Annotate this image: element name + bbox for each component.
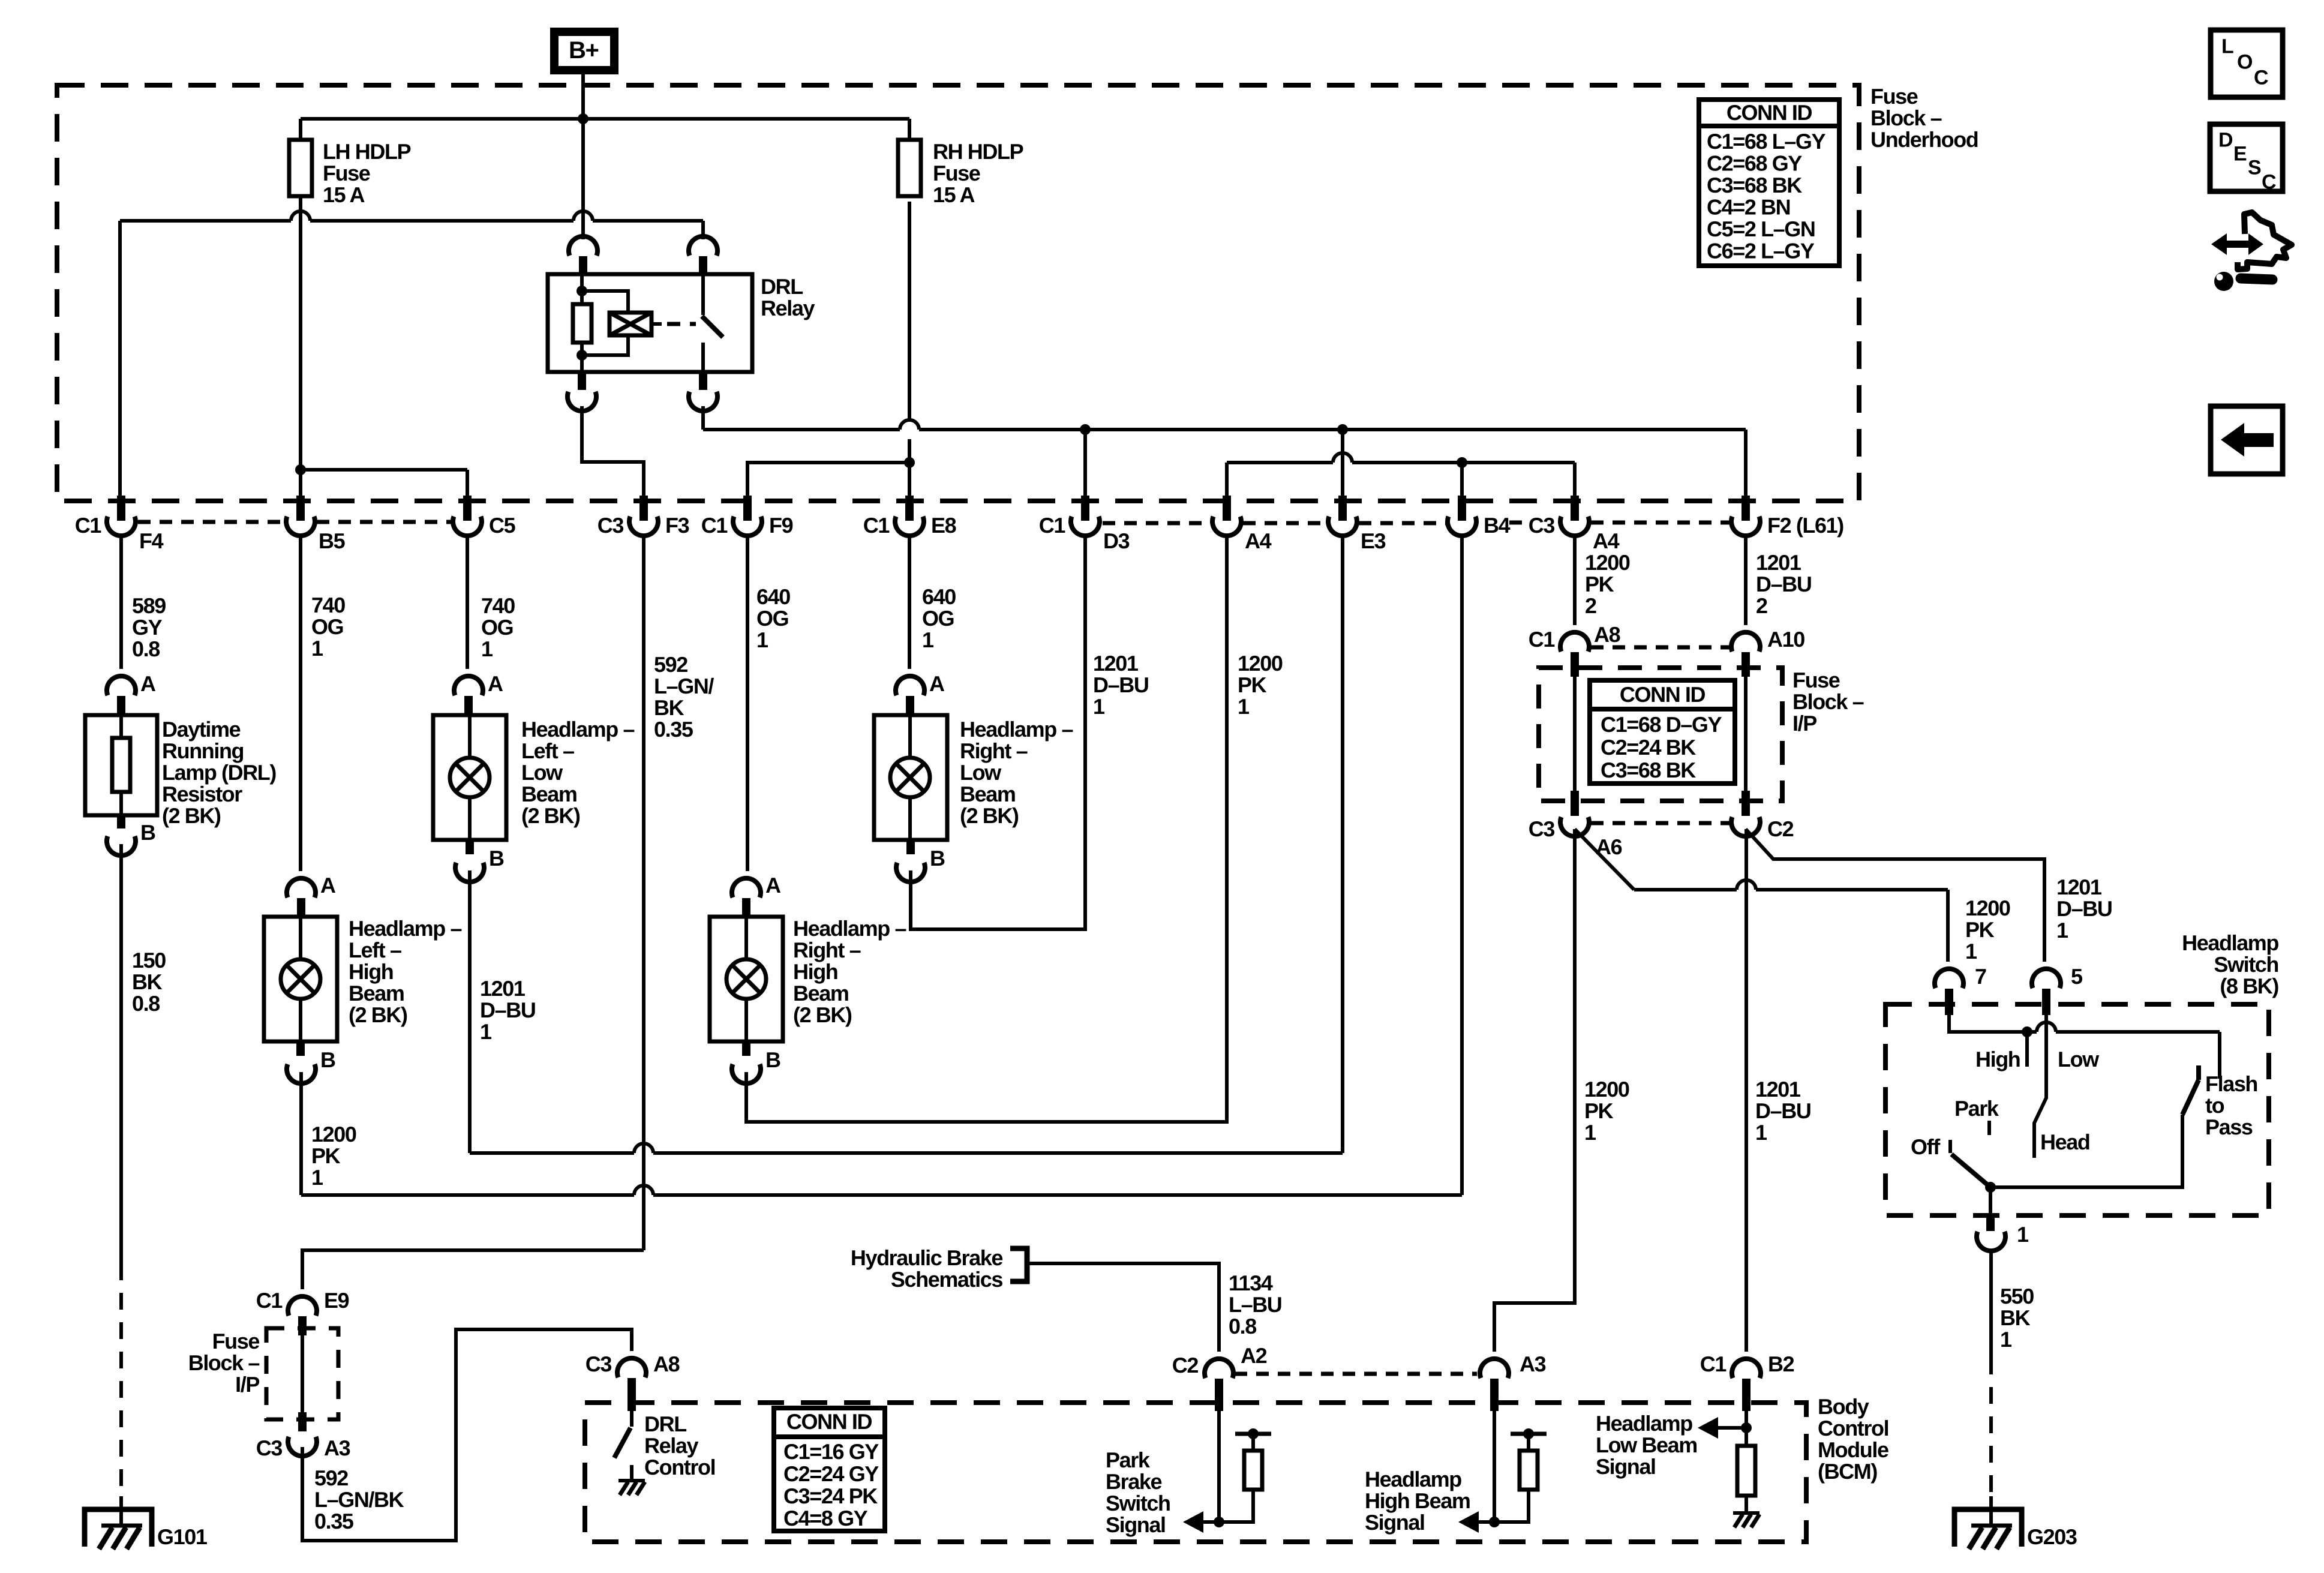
wire F2 drop xyxy=(1744,430,1747,499)
wire 550 BK xyxy=(1989,1253,1993,1358)
svg-text:1: 1 xyxy=(756,628,768,652)
svg-text:Fuse: Fuse xyxy=(212,1329,260,1353)
svg-text:C1: C1 xyxy=(1529,627,1556,652)
Fuse Block I/P dashed box (left) xyxy=(266,1328,338,1419)
svg-text:C1=16 GY: C1=16 GY xyxy=(783,1439,879,1464)
svg-text:Off: Off xyxy=(1911,1134,1941,1159)
svg-text:A: A xyxy=(929,671,945,696)
svg-text:D–BU: D–BU xyxy=(1755,1098,1810,1123)
svg-text:Running: Running xyxy=(162,739,244,763)
wire to B5 xyxy=(299,470,302,499)
connector link dashes right connectors xyxy=(1103,521,1211,526)
wire through I/P box left xyxy=(1573,668,1577,801)
svg-text:C: C xyxy=(2254,67,2268,89)
svg-text:1200: 1200 xyxy=(311,1122,356,1146)
svg-text:C2=24 BK: C2=24 BK xyxy=(1601,735,1696,760)
svg-text:1: 1 xyxy=(1755,1120,1767,1145)
connector F3 at fuse block underhood xyxy=(639,496,648,521)
lamp Headlamp - Right - High Beam xyxy=(710,917,783,1041)
svg-text:Control: Control xyxy=(1818,1416,1888,1440)
relay DRL top connector switch side xyxy=(689,236,717,256)
svg-text:A2: A2 xyxy=(1241,1343,1267,1368)
svg-text:OG: OG xyxy=(311,614,343,639)
svg-text:Beam: Beam xyxy=(793,981,848,1005)
connector B5 at fuse block underhood xyxy=(296,496,305,521)
svg-text:1: 1 xyxy=(480,1019,492,1044)
svg-text:C5: C5 xyxy=(489,513,516,538)
relay DRL coil branch xyxy=(582,291,628,313)
wire F2 col down xyxy=(1744,536,1747,625)
svg-text:I/P: I/P xyxy=(235,1372,259,1397)
svg-text:C1=68 L–GY: C1=68 L–GY xyxy=(1707,129,1826,154)
connector link dash A8-A10 xyxy=(1591,646,1730,650)
svg-text:Low: Low xyxy=(960,760,1002,785)
svg-text:L: L xyxy=(2221,35,2233,58)
svg-text:C2: C2 xyxy=(1172,1353,1199,1377)
svg-text:B2: B2 xyxy=(1768,1352,1794,1376)
wire B+ down to relay coil xyxy=(581,121,585,239)
connector B headlamp right low xyxy=(906,840,915,854)
connector B headlamp right high xyxy=(742,1041,750,1056)
svg-text:Lamp (DRL): Lamp (DRL) xyxy=(162,760,276,785)
svg-text:L–GN/BK: L–GN/BK xyxy=(314,1487,404,1512)
svg-text:1201: 1201 xyxy=(2056,875,2102,899)
svg-text:BK: BK xyxy=(654,695,684,720)
svg-text:Brake: Brake xyxy=(1106,1469,1161,1494)
connector link dash A6-C2 xyxy=(1591,821,1730,825)
connector A3 BCM xyxy=(1480,1359,1509,1378)
wire F9 branch xyxy=(747,463,909,499)
svg-text:A8: A8 xyxy=(653,1352,680,1376)
svg-text:1: 1 xyxy=(311,1165,323,1190)
svg-text:Pass: Pass xyxy=(2205,1115,2253,1139)
lamp Headlamp - Left - Low Beam xyxy=(433,715,506,840)
table CONN ID BCM xyxy=(774,1408,885,1531)
fuse LH HDLP 15A xyxy=(289,140,312,196)
connector C2 xyxy=(1742,791,1750,816)
svg-text:1201: 1201 xyxy=(1755,1077,1801,1101)
icon schematic reference (arrow + outline + wrench) xyxy=(2211,233,2263,255)
svg-text:592: 592 xyxy=(314,1466,348,1490)
connector E8 at fuse block underhood xyxy=(905,496,914,521)
connector B of DRL resistor xyxy=(117,815,125,828)
connector A of DRL resistor xyxy=(107,676,136,695)
svg-text:D–BU: D–BU xyxy=(1093,673,1148,697)
svg-text:D: D xyxy=(2218,129,2233,152)
svg-text:C4=2 BN: C4=2 BN xyxy=(1707,195,1790,220)
svg-text:Low Beam: Low Beam xyxy=(1596,1433,1697,1457)
wire E8 down xyxy=(908,536,911,669)
svg-text:A4: A4 xyxy=(1593,529,1620,553)
connector E3 at fuse block underhood xyxy=(1338,496,1347,521)
relay DRL bottom connector switch side xyxy=(699,372,707,390)
svg-text:740: 740 xyxy=(311,593,345,617)
switch Park contact stub xyxy=(1987,1121,1991,1135)
switch Off blade xyxy=(1951,1154,1990,1187)
svg-text:CONN ID: CONN ID xyxy=(1620,682,1706,707)
svg-text:(2 BK): (2 BK) xyxy=(349,1002,407,1027)
wire branch to C5 xyxy=(301,468,467,472)
connector C2 A2 xyxy=(1205,1359,1233,1378)
svg-text:CONN ID: CONN ID xyxy=(786,1409,872,1434)
svg-text:1: 1 xyxy=(1238,694,1250,719)
svg-text:S: S xyxy=(2248,157,2261,179)
svg-text:PK: PK xyxy=(1238,673,1267,697)
svg-text:C5=2 L–GN: C5=2 L–GN xyxy=(1707,217,1815,241)
svg-text:C1: C1 xyxy=(863,513,890,538)
svg-text:E: E xyxy=(2233,143,2247,166)
svg-text:E8: E8 xyxy=(931,513,956,538)
connector pin 7 xyxy=(1935,969,1963,988)
svg-text:Block –: Block – xyxy=(188,1350,260,1375)
Headlamp Switch dashed box xyxy=(1885,1004,2269,1215)
svg-text:F3: F3 xyxy=(665,513,689,538)
svg-text:OG: OG xyxy=(481,615,513,640)
svg-text:Body: Body xyxy=(1818,1394,1869,1419)
wire DRL relay switch feed to F4 (hops LH fuse + B+ wires) xyxy=(120,219,291,223)
svg-text:C3: C3 xyxy=(585,1352,612,1376)
svg-text:D3: D3 xyxy=(1103,529,1130,553)
node B+ junction xyxy=(578,113,588,124)
svg-text:High Beam: High Beam xyxy=(1365,1488,1470,1513)
svg-text:Schematics: Schematics xyxy=(891,1267,1002,1292)
wire RH fuse output down xyxy=(908,202,911,420)
lamp Headlamp - Left - High Beam xyxy=(264,917,337,1041)
connector C5 at fuse block underhood xyxy=(463,496,472,521)
svg-text:1: 1 xyxy=(2017,1222,2029,1247)
svg-text:Hydraulic Brake: Hydraulic Brake xyxy=(851,1245,1003,1270)
svg-text:Resistor: Resistor xyxy=(162,782,242,806)
svg-text:O: O xyxy=(2237,51,2253,74)
icon DESC box xyxy=(2210,124,2283,191)
connector A headlamp left high xyxy=(287,878,316,897)
svg-text:Beam: Beam xyxy=(349,981,404,1005)
svg-text:High: High xyxy=(1975,1047,2020,1071)
svg-text:I/P: I/P xyxy=(1792,711,1816,736)
svg-text:C4=8 GY: C4=8 GY xyxy=(783,1506,868,1530)
connector F9 at fuse block underhood xyxy=(743,496,752,521)
wire C3-A4 col down xyxy=(1573,536,1577,625)
svg-text:C1: C1 xyxy=(75,513,102,538)
svg-text:1200: 1200 xyxy=(1965,896,2010,920)
svg-text:C1: C1 xyxy=(256,1288,283,1313)
svg-text:GY: GY xyxy=(132,615,163,640)
relay DRL coil X-box xyxy=(609,313,651,335)
svg-text:Fuse: Fuse xyxy=(1870,84,1918,109)
wire pin7 to High contact junction (hops Low wire) xyxy=(1949,1004,2027,1032)
svg-text:Right –: Right – xyxy=(960,739,1028,763)
svg-text:Beam: Beam xyxy=(521,782,577,806)
connector A10 xyxy=(1731,632,1760,652)
svg-text:1: 1 xyxy=(1584,1120,1596,1145)
svg-text:B: B xyxy=(320,1047,335,1072)
svg-text:Headlamp: Headlamp xyxy=(1365,1467,1461,1491)
connector C1 E9 xyxy=(288,1296,317,1316)
svg-text:15 A: 15 A xyxy=(323,182,365,207)
svg-text:A: A xyxy=(765,873,781,897)
svg-text:1: 1 xyxy=(2000,1327,2012,1352)
svg-text:(2 BK): (2 BK) xyxy=(521,803,580,828)
connector D3 at fuse block underhood xyxy=(1081,496,1089,521)
B+ power symbol xyxy=(550,28,618,74)
svg-text:Control: Control xyxy=(644,1455,715,1479)
svg-text:Fuse: Fuse xyxy=(933,161,980,185)
lamp Headlamp - Right - Low Beam xyxy=(874,715,947,840)
svg-text:Park: Park xyxy=(1954,1096,1999,1121)
wire relay switch output bus to F2 (hops RH fuse wire) xyxy=(701,406,705,430)
svg-text:A8: A8 xyxy=(1594,622,1620,647)
connector F2 (L61) at fuse block underhood xyxy=(1742,496,1750,521)
svg-text:Signal: Signal xyxy=(1596,1454,1656,1479)
svg-text:Headlamp: Headlamp xyxy=(2182,930,2278,955)
svg-text:C3=24 PK: C3=24 PK xyxy=(783,1484,878,1508)
table CONN ID fuse block underhood xyxy=(1699,100,1839,266)
bracket hydraulic brake xyxy=(1010,1248,1027,1281)
svg-text:589: 589 xyxy=(132,593,166,618)
svg-text:C3: C3 xyxy=(597,513,624,538)
relay DRL box xyxy=(548,274,752,372)
svg-text:A3: A3 xyxy=(1520,1352,1546,1376)
wire A6 diagonal to headlamp switch pin 7 (hops C2 wire) xyxy=(1575,829,1634,890)
connector link dashes C1 row xyxy=(138,520,284,524)
svg-text:L–GN/: L–GN/ xyxy=(654,674,714,698)
svg-text:Signal: Signal xyxy=(1106,1512,1166,1537)
svg-text:PK: PK xyxy=(311,1143,341,1168)
svg-text:DRL: DRL xyxy=(761,274,803,299)
svg-text:L–BU: L–BU xyxy=(1229,1292,1281,1317)
svg-text:Head: Head xyxy=(2040,1130,2089,1154)
svg-text:Block –: Block – xyxy=(1870,106,1942,130)
svg-text:B: B xyxy=(140,820,155,845)
wire LH fuse drop xyxy=(299,119,302,140)
svg-text:1: 1 xyxy=(481,637,493,661)
wire left high beam B to B4 (hops 592 wire) xyxy=(299,1072,303,1195)
svg-text:C1: C1 xyxy=(1039,513,1066,538)
wire C2 down to BCM B2 xyxy=(1744,829,1748,1352)
svg-text:G203: G203 xyxy=(2027,1524,2077,1549)
connector A headlamp right low xyxy=(896,676,924,695)
svg-text:F9: F9 xyxy=(769,513,793,538)
svg-text:C: C xyxy=(2262,171,2276,194)
wire common to connector 1 xyxy=(1989,1187,1992,1215)
svg-text:A10: A10 xyxy=(1767,627,1804,652)
svg-text:OG: OG xyxy=(756,606,788,631)
svg-text:High: High xyxy=(349,959,393,984)
svg-text:(2 BK): (2 BK) xyxy=(960,803,1019,828)
wire RH fuse drop xyxy=(908,119,911,140)
connector B4 at fuse block underhood xyxy=(1458,496,1466,521)
park brake switch signal network xyxy=(1217,1403,1221,1522)
wire F9 down xyxy=(746,536,749,871)
svg-text:Beam: Beam xyxy=(960,782,1015,806)
svg-text:1201: 1201 xyxy=(1093,651,1139,676)
svg-text:B: B xyxy=(489,846,504,870)
svg-text:PK: PK xyxy=(1585,572,1614,596)
svg-text:5: 5 xyxy=(2071,964,2083,989)
svg-text:Low: Low xyxy=(2058,1047,2100,1071)
svg-text:Fuse: Fuse xyxy=(323,161,370,185)
svg-text:2: 2 xyxy=(1756,593,1767,618)
switch Off contact stub xyxy=(1948,1140,1952,1153)
svg-text:C1: C1 xyxy=(1700,1352,1727,1376)
svg-text:1200: 1200 xyxy=(1238,651,1283,676)
node RH fuse to high-beam bus xyxy=(904,457,915,468)
connector C3 A8 DRL relay control xyxy=(617,1358,646,1377)
wire C5 down xyxy=(466,536,469,669)
svg-text:Relay: Relay xyxy=(644,1433,698,1458)
switch High contact stub xyxy=(2025,1032,2029,1067)
connector C1 A8 xyxy=(1560,632,1589,652)
svg-text:Headlamp –: Headlamp – xyxy=(960,717,1073,742)
svg-text:1200: 1200 xyxy=(1585,550,1630,575)
svg-text:C1: C1 xyxy=(701,513,728,538)
svg-text:B5: B5 xyxy=(319,529,346,553)
node E3 tap xyxy=(1337,424,1348,435)
wire F4 down xyxy=(119,536,123,669)
svg-text:C2=68 GY: C2=68 GY xyxy=(1707,151,1802,176)
svg-text:(2 BK): (2 BK) xyxy=(162,803,221,828)
svg-text:Park: Park xyxy=(1106,1448,1151,1472)
svg-text:0.8: 0.8 xyxy=(132,637,160,661)
svg-text:C6=2 L–GY: C6=2 L–GY xyxy=(1707,239,1815,263)
svg-text:C3: C3 xyxy=(1529,816,1555,841)
svg-text:640: 640 xyxy=(922,584,956,609)
relay DRL bottom connector coil side xyxy=(578,372,586,390)
svg-text:1: 1 xyxy=(1093,694,1105,719)
svg-text:BK: BK xyxy=(132,969,163,994)
svg-text:(BCM): (BCM) xyxy=(1818,1459,1877,1484)
svg-text:High: High xyxy=(793,959,837,984)
svg-text:0.35: 0.35 xyxy=(654,717,693,742)
svg-text:Module: Module xyxy=(1818,1437,1888,1462)
svg-text:LH HDLP: LH HDLP xyxy=(323,139,411,164)
svg-text:Underhood: Underhood xyxy=(1870,127,1978,152)
switch DRL Relay Control xyxy=(630,1403,633,1427)
svg-text:1134: 1134 xyxy=(1229,1271,1273,1295)
connector B headlamp left high xyxy=(296,1041,305,1056)
svg-text:150: 150 xyxy=(132,948,166,972)
connector A4 at fuse block underhood xyxy=(1223,496,1231,521)
svg-text:Flash: Flash xyxy=(2205,1071,2257,1096)
svg-text:C2: C2 xyxy=(1767,816,1794,841)
svg-text:(2 BK): (2 BK) xyxy=(793,1002,852,1027)
wire B+ feed horizontal xyxy=(301,117,909,121)
svg-text:E9: E9 xyxy=(324,1288,349,1313)
svg-text:Right –: Right – xyxy=(793,938,861,962)
svg-text:C2=24 GY: C2=24 GY xyxy=(783,1461,879,1486)
connector pin 5 xyxy=(2032,969,2061,988)
svg-text:A: A xyxy=(320,873,336,897)
Fuse Block - Underhood dashed box xyxy=(57,85,1859,501)
wire right high beam B to A4 xyxy=(746,536,1227,1122)
table CONN ID fuse block I/P xyxy=(1590,680,1735,784)
svg-text:A: A xyxy=(488,671,503,696)
svg-text:0.8: 0.8 xyxy=(132,991,160,1016)
svg-text:CONN ID: CONN ID xyxy=(1727,100,1812,125)
connector A4 at fuse block underhood xyxy=(1571,496,1579,521)
relay DRL actuator dashed link xyxy=(667,322,696,326)
icon LOC box xyxy=(2211,30,2283,97)
svg-text:B: B xyxy=(765,1047,780,1072)
svg-text:1201: 1201 xyxy=(480,976,526,1001)
wire LH fuse output down xyxy=(299,211,302,461)
svg-text:15 A: 15 A xyxy=(933,182,975,207)
connector A headlamp left low xyxy=(454,676,483,695)
svg-text:Headlamp –: Headlamp – xyxy=(793,916,906,941)
svg-text:1200: 1200 xyxy=(1584,1077,1629,1101)
wire Low from pin5 xyxy=(2034,1004,2046,1158)
svg-text:Signal: Signal xyxy=(1365,1510,1425,1535)
svg-text:D–BU: D–BU xyxy=(1756,572,1811,596)
wire B+ down to junction xyxy=(581,74,585,119)
svg-text:B4: B4 xyxy=(1484,513,1511,538)
wire A6 down to BCM A3 xyxy=(1494,829,1575,1352)
svg-text:B: B xyxy=(930,846,945,870)
connector C1 B2 xyxy=(1732,1359,1761,1378)
relay DRL coil resistor xyxy=(580,274,584,304)
wire right low beam B to D3 xyxy=(911,536,1085,929)
svg-text:Daytime: Daytime xyxy=(162,717,241,742)
svg-text:RH HDLP: RH HDLP xyxy=(933,139,1023,164)
fuse RH HDLP 15A xyxy=(898,140,921,196)
svg-text:Switch: Switch xyxy=(2214,952,2278,977)
svg-text:Relay: Relay xyxy=(761,296,815,320)
svg-text:B+: B+ xyxy=(569,37,598,64)
svg-text:0.35: 0.35 xyxy=(314,1509,354,1533)
svg-text:C1=68 D–GY: C1=68 D–GY xyxy=(1601,712,1722,737)
svg-text:1: 1 xyxy=(2056,918,2068,942)
connector A headlamp right high xyxy=(732,878,761,897)
resistor Daytime Running Lamp (DRL) xyxy=(85,715,157,815)
svg-text:DRL: DRL xyxy=(644,1412,686,1436)
svg-text:C3: C3 xyxy=(1529,513,1555,538)
svg-text:7: 7 xyxy=(1975,964,1986,989)
svg-text:D–BU: D–BU xyxy=(480,998,535,1022)
svg-text:OG: OG xyxy=(922,606,954,631)
switch flash-to-pass blade xyxy=(2196,1065,2201,1080)
svg-text:1: 1 xyxy=(922,628,934,652)
svg-text:BK: BK xyxy=(2000,1305,2031,1330)
wire through I/P box right xyxy=(1744,668,1747,801)
ground G203 xyxy=(1954,1509,2022,1547)
svg-text:1: 1 xyxy=(311,636,323,661)
wire flash-to-pass to common xyxy=(1990,1115,2182,1187)
svg-text:A3: A3 xyxy=(324,1436,350,1460)
svg-text:1201: 1201 xyxy=(1756,550,1801,575)
svg-text:(8 BK): (8 BK) xyxy=(2220,974,2278,998)
wire C3-A4 drop xyxy=(1573,463,1577,499)
svg-text:C3=68 BK: C3=68 BK xyxy=(1601,758,1696,782)
wire 592 to DRL relay control xyxy=(302,1329,632,1541)
wire B5 down xyxy=(299,536,302,871)
headlamp high beam signal network xyxy=(1493,1403,1496,1522)
wire hydraulic brake to A2 xyxy=(1027,1263,1219,1352)
ground G101 xyxy=(85,1509,152,1547)
svg-text:592: 592 xyxy=(654,652,687,677)
wire left low beam B to E3 (hops 592 wire) xyxy=(468,870,472,1153)
wire through fuse block xyxy=(301,1328,304,1419)
svg-text:Left –: Left – xyxy=(349,938,401,962)
svg-text:Block –: Block – xyxy=(1792,689,1864,714)
svg-text:Headlamp –: Headlamp – xyxy=(349,916,461,941)
icon back arrow box xyxy=(2211,406,2283,474)
relay DRL switch xyxy=(701,274,705,315)
svg-text:to: to xyxy=(2205,1093,2224,1118)
svg-text:Switch: Switch xyxy=(1106,1491,1170,1515)
svg-text:F4: F4 xyxy=(139,529,164,553)
svg-text:550: 550 xyxy=(2000,1284,2034,1308)
svg-text:A4: A4 xyxy=(1245,529,1272,553)
